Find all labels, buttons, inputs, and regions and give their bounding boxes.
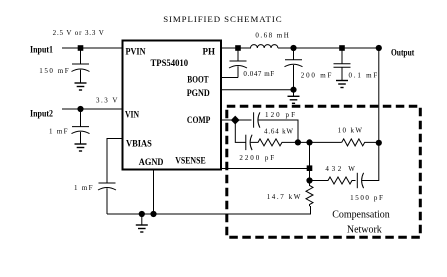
junction comp node a [295, 139, 301, 145]
svg-text:SIMPLIFIED SCHEMATIC: SIMPLIFIED SCHEMATIC [163, 14, 282, 24]
compensation network dashed box [227, 106, 420, 237]
svg-text:COMP: COMP [187, 116, 211, 126]
wire BOOT [221, 77, 238, 79]
capacitor C8 2200 pF [245, 135, 247, 150]
capacitor C2 1 mF [80, 109, 82, 127]
svg-text:PH: PH [203, 48, 216, 58]
svg-text:200 mF: 200 mF [301, 72, 332, 80]
wire comp node b down [309, 142, 311, 185]
wire analog ground bus [107, 206, 311, 214]
wire inductor to output [278, 47, 379, 49]
svg-text:150 mF: 150 mF [39, 67, 68, 75]
resistor R1 4.64 kW [250, 139, 298, 146]
svg-text:VIN: VIN [125, 111, 139, 121]
junction Vout node 1 [290, 45, 296, 51]
svg-text:1500 pF: 1500 pF [350, 194, 383, 202]
junction Vout node 2 [339, 45, 345, 51]
capacitor C6 0.1 mF [341, 48, 343, 64]
wire Input2 to VIN [62, 108, 123, 110]
svg-text:0.047 mF: 0.047 mF [243, 70, 274, 78]
ground power ground [293, 90, 295, 97]
wire output feedback vertical [378, 48, 380, 143]
junction feedback node [376, 140, 382, 146]
svg-text:1 mF: 1 mF [74, 184, 93, 192]
junction Input2 node [77, 106, 83, 112]
svg-text:Output: Output [391, 48, 415, 58]
wire PGND [221, 89, 294, 91]
capacitor C1 150 mF [80, 48, 82, 64]
wire COMP [221, 119, 252, 121]
wire node to 10k [298, 141, 342, 143]
ground for C6 [336, 80, 348, 82]
svg-text:0.1 mF: 0.1 mF [349, 72, 378, 80]
wire C9 to output line [362, 143, 379, 181]
svg-text:1 mF: 1 mF [49, 128, 68, 136]
junction AGND pin node [150, 211, 156, 217]
junction PGND node [290, 87, 296, 93]
op-amp U1 TPS54010 IC box [123, 41, 222, 170]
junction VSENSE node [307, 165, 313, 171]
ground for C2 [75, 143, 87, 145]
svg-text:4.64 kW: 4.64 kW [264, 127, 293, 135]
wire COMP down branch [235, 120, 245, 142]
svg-text:BOOT: BOOT [187, 76, 209, 86]
svg-text:VSENSE: VSENSE [175, 156, 206, 166]
junction Input1 node [78, 45, 84, 51]
svg-text:Input1: Input1 [30, 45, 53, 55]
svg-text:Input2: Input2 [30, 109, 53, 119]
wire AGND pin [153, 170, 155, 215]
wire VBIAS [107, 139, 123, 184]
svg-text:PVIN: PVIN [126, 48, 146, 58]
resistor R2 10 kW [342, 139, 379, 146]
junction ground tap [139, 211, 145, 217]
junction comp node b [306, 139, 312, 145]
svg-text:3.3 V: 3.3 V [96, 97, 118, 105]
capacitor C7 120 pF [253, 112, 255, 127]
capacitor C3 1 mF (VBIAS bypass) [99, 182, 116, 184]
ground AGND [141, 214, 143, 225]
junction Output node [376, 45, 382, 51]
svg-text:Network: Network [347, 223, 382, 235]
capacitor C4 0.047 mF (bootstrap) [237, 48, 239, 61]
resistor R3 432 W [310, 177, 356, 184]
svg-text:2.5 V or 3.3 V: 2.5 V or 3.3 V [53, 29, 104, 37]
svg-text:VBIAS: VBIAS [126, 139, 152, 149]
svg-text:PGND: PGND [187, 89, 210, 99]
svg-text:TPS54010: TPS54010 [151, 59, 189, 69]
wire 120 pF to node [258, 120, 298, 142]
svg-text:Compensation: Compensation [332, 209, 390, 221]
wire PH to inductor [221, 47, 251, 49]
wire Input1 to PVIN [62, 47, 123, 49]
svg-text:14.7 kW: 14.7 kW [267, 193, 301, 201]
ground for C1 [75, 82, 87, 84]
inductor L1 0.68 mH [251, 45, 278, 48]
capacitor C5 200 mF [293, 48, 295, 60]
resistor R4 14.7 kW [306, 181, 313, 207]
junction PH node [235, 45, 241, 51]
junction R3 branch node [306, 177, 312, 183]
junction COMP node [231, 116, 240, 125]
wire VSENSE [221, 168, 310, 170]
capacitor C9 1500 pF [356, 173, 358, 188]
svg-text:AGND: AGND [139, 158, 164, 168]
